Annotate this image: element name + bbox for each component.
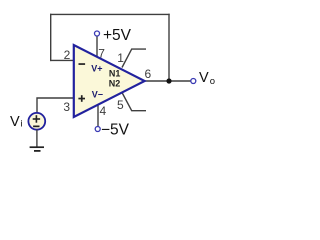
svg-text:N2: N2 xyxy=(109,79,121,89)
wire output xyxy=(144,80,191,82)
op-amp N1/N2 triangle xyxy=(74,45,145,117)
svg-text:6: 6 xyxy=(145,67,152,81)
wire feedback top horizontal xyxy=(50,13,170,15)
svg-text:V: V xyxy=(199,70,209,86)
label plus input (pin 3) xyxy=(78,95,85,102)
svg-text:o: o xyxy=(210,76,215,87)
svg-text:7: 7 xyxy=(98,46,105,60)
svg-text:4: 4 xyxy=(99,104,106,118)
source Vi plus mark xyxy=(33,115,40,123)
wire pin 7 stub xyxy=(96,36,98,58)
terminal -5V circle xyxy=(95,127,100,132)
source Vi circle xyxy=(28,113,45,130)
svg-text:N1: N1 xyxy=(109,69,121,79)
svg-text:V−: V− xyxy=(92,90,103,100)
wire feedback left vertical xyxy=(50,14,52,61)
wire pin 1 stub xyxy=(122,49,146,67)
wire pin 5 stub xyxy=(122,93,146,111)
svg-text:V: V xyxy=(10,114,20,130)
svg-text:+5V: +5V xyxy=(103,27,132,44)
wire pin 3 horizontal xyxy=(37,98,75,114)
svg-text:5: 5 xyxy=(117,98,124,112)
wire pin 4 stub xyxy=(97,104,99,127)
svg-text:3: 3 xyxy=(63,100,70,114)
wire feedback right vertical xyxy=(168,14,170,81)
wire Vi to ground xyxy=(36,130,38,148)
terminal Vo circle xyxy=(191,79,196,84)
svg-text:−5V: −5V xyxy=(101,122,130,139)
svg-text:1: 1 xyxy=(117,51,124,65)
wire pin 2 horizontal xyxy=(50,59,75,61)
svg-text:i: i xyxy=(20,118,22,129)
label minus input (pin 2) xyxy=(79,63,86,65)
node output junction xyxy=(166,78,171,83)
svg-text:V+: V+ xyxy=(91,64,102,74)
ground xyxy=(30,147,44,151)
terminal +5V circle xyxy=(95,31,100,36)
svg-text:2: 2 xyxy=(64,48,71,62)
source Vi minus mark xyxy=(33,126,39,128)
